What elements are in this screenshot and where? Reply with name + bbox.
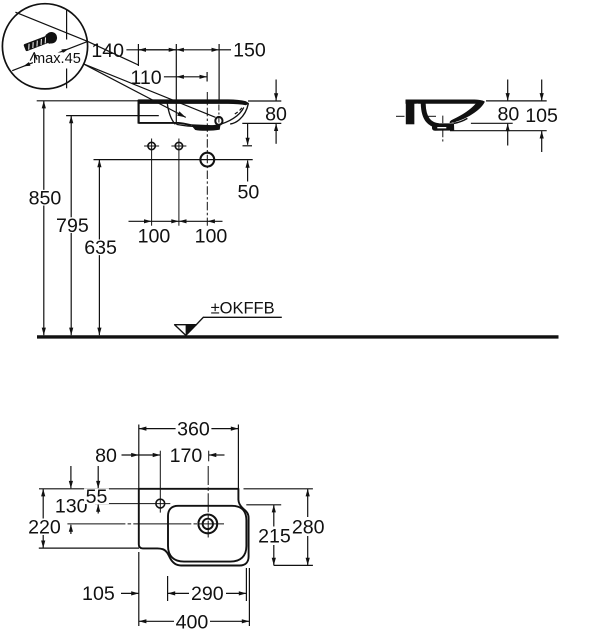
svg-text:100: 100 — [195, 226, 228, 248]
svg-text:80: 80 — [95, 445, 117, 467]
svg-text:220: 220 — [28, 517, 61, 539]
svg-text:400: 400 — [176, 611, 209, 633]
svg-text:±OKFFB: ±OKFFB — [211, 299, 275, 317]
svg-text:280: 280 — [292, 517, 325, 539]
svg-text:55: 55 — [86, 486, 108, 508]
svg-text:795: 795 — [56, 215, 89, 237]
svg-text:max.45: max.45 — [33, 51, 81, 67]
svg-text:360: 360 — [177, 419, 210, 441]
svg-text:170: 170 — [170, 445, 203, 467]
svg-text:105: 105 — [525, 105, 558, 127]
svg-text:850: 850 — [29, 187, 62, 209]
svg-text:100: 100 — [138, 226, 171, 248]
svg-text:215: 215 — [258, 526, 291, 548]
svg-text:50: 50 — [238, 181, 260, 203]
svg-text:80: 80 — [498, 104, 520, 126]
svg-text:150: 150 — [233, 40, 266, 62]
svg-text:130: 130 — [55, 496, 88, 518]
svg-text:110: 110 — [130, 67, 161, 89]
svg-text:635: 635 — [84, 237, 117, 259]
svg-text:290: 290 — [191, 583, 224, 605]
svg-text:105: 105 — [82, 583, 115, 605]
svg-text:80: 80 — [265, 103, 287, 125]
